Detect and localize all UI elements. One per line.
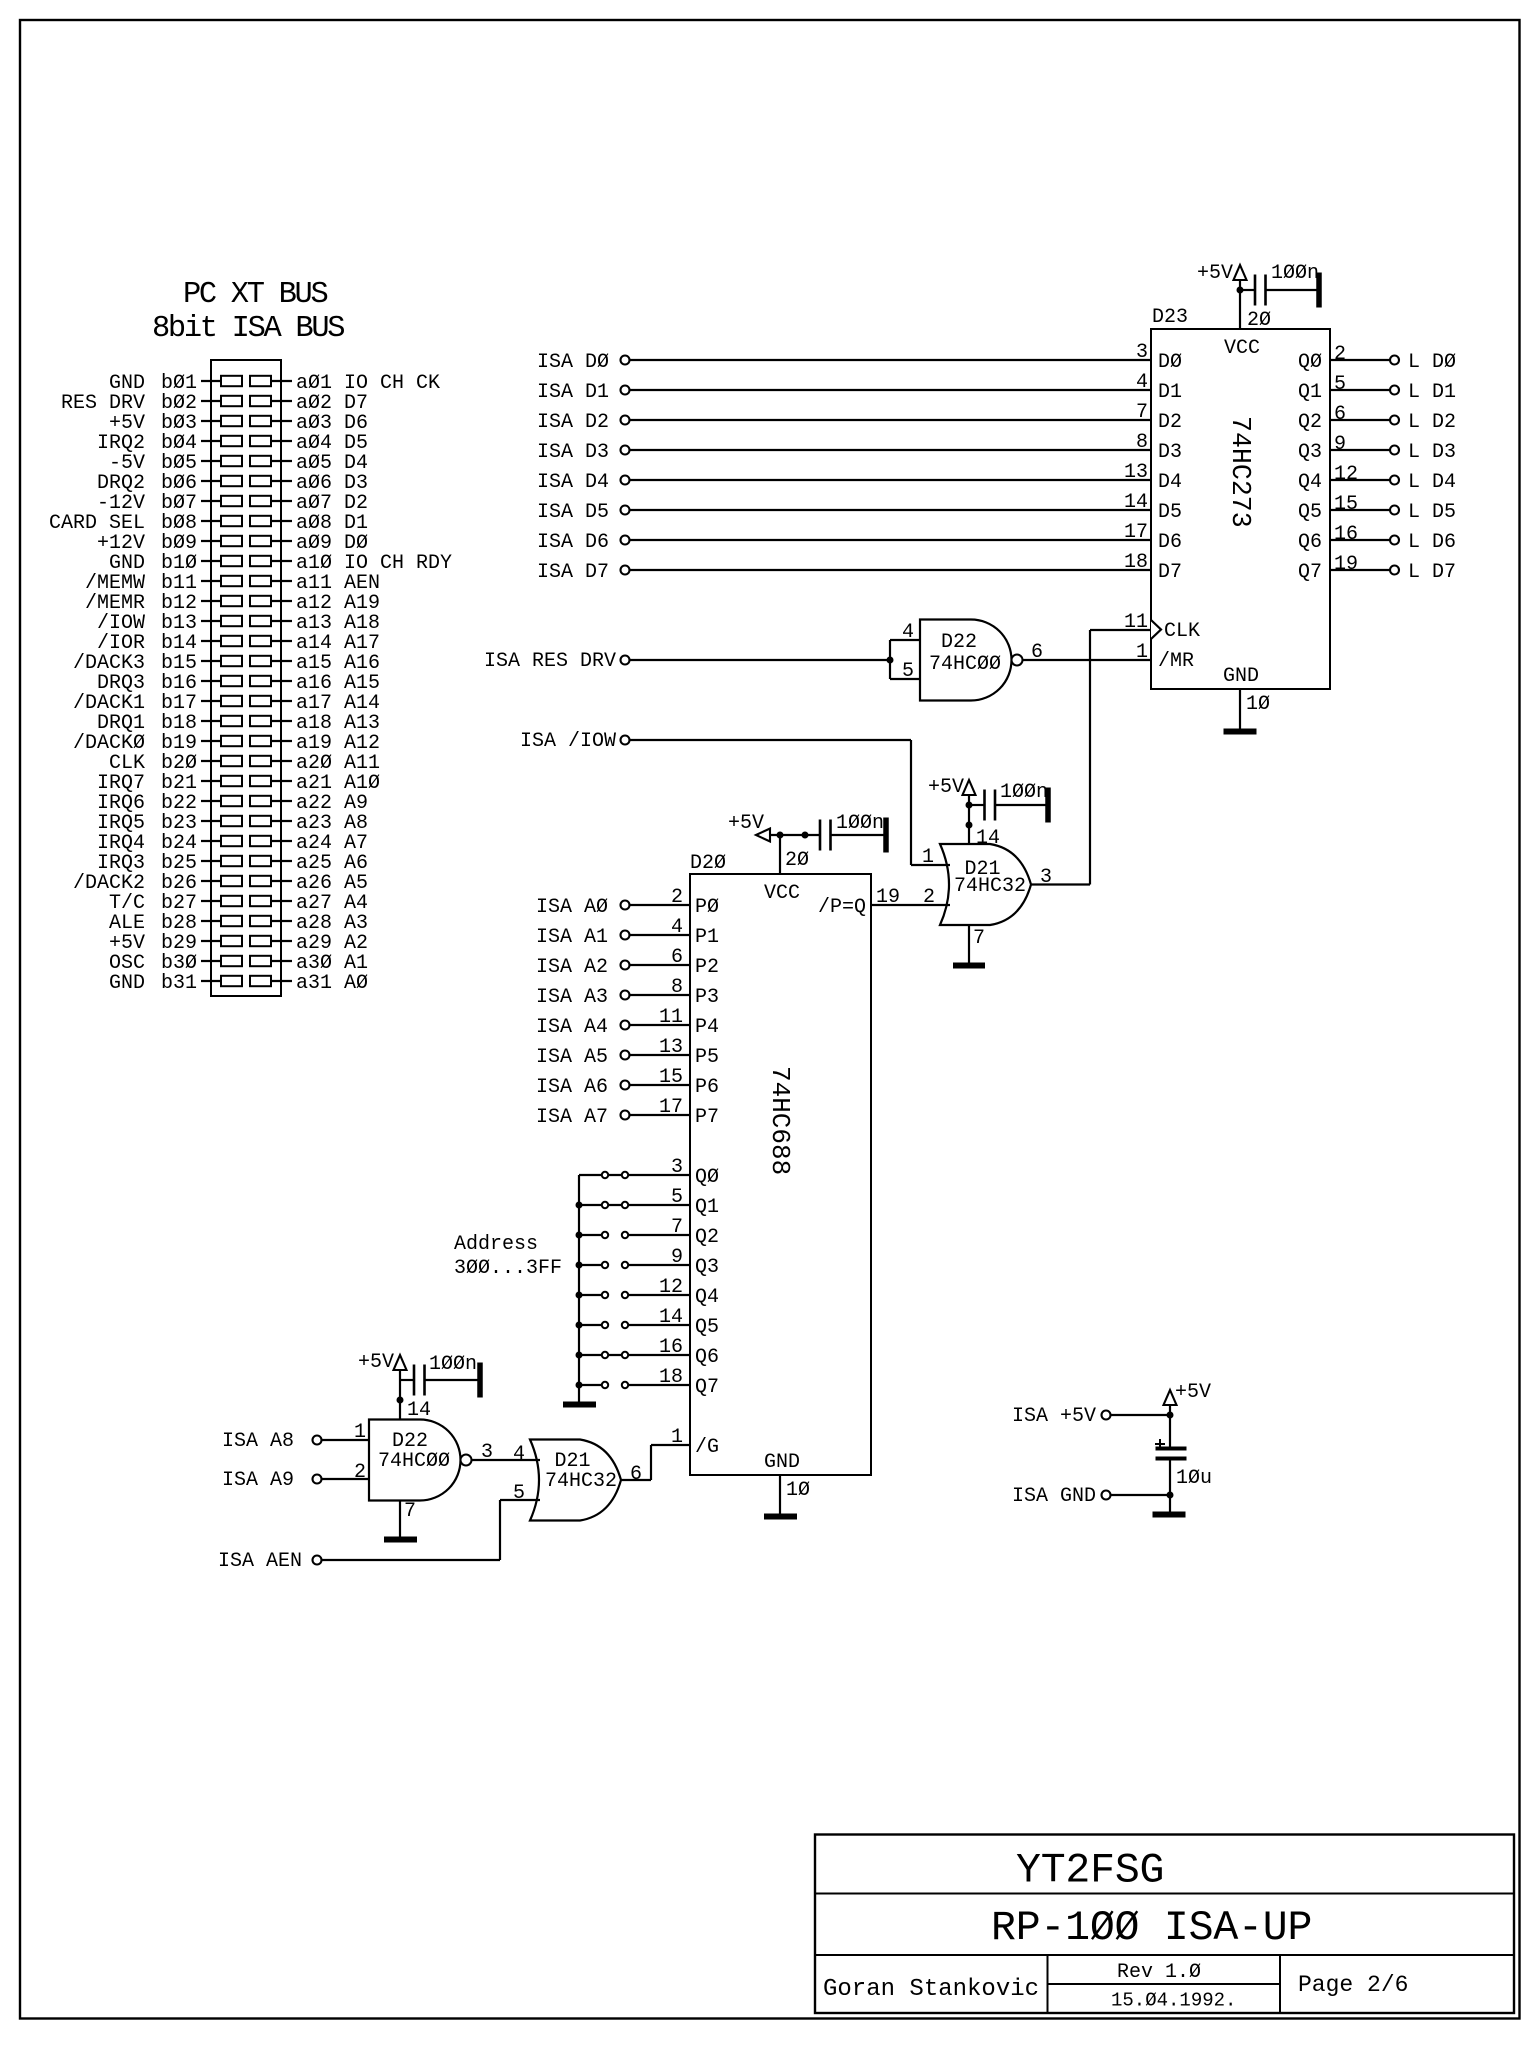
D22 pin 2 number xyxy=(354,1461,366,1484)
D23 pin label D0 xyxy=(1158,351,1182,374)
svg-text:ISA D3: ISA D3 xyxy=(537,441,609,464)
node label: PC XT BUS heading xyxy=(183,278,327,312)
wire ISA RES DRV to D22 inputs xyxy=(630,640,920,679)
D23 pin label D2 xyxy=(1158,411,1182,434)
svg-text:D2: D2 xyxy=(1158,411,1182,434)
D23 pin 3 number xyxy=(1136,341,1148,364)
svg-text:3: 3 xyxy=(1136,341,1148,364)
wire ISA D4 to D23 pin 13 xyxy=(630,479,1151,481)
wire ISA D5 to D23 pin 14 xyxy=(630,509,1151,511)
svg-text:Q3: Q3 xyxy=(695,1256,719,1279)
svg-text:QØ: QØ xyxy=(695,1166,719,1189)
svg-text:ISA A1: ISA A1 xyxy=(536,926,608,949)
D23 pin 11 number xyxy=(1124,611,1148,634)
D23 pin label D5 xyxy=(1158,501,1182,524)
D23 pin label Q2 xyxy=(1298,411,1322,434)
svg-text:74HC688: 74HC688 xyxy=(765,1066,795,1175)
node ISA RES DRV terminal xyxy=(484,650,630,673)
D20 pin 8 number xyxy=(671,976,683,999)
svg-text:QØ: QØ xyxy=(1298,351,1322,374)
D20 pin 20 VCC stem xyxy=(777,832,809,874)
svg-text:ISA A4: ISA A4 xyxy=(536,1016,608,1039)
D23 pin 5 number xyxy=(1334,373,1346,396)
node ISA A0 terminal xyxy=(536,896,630,919)
node ISA D5 terminal xyxy=(537,501,630,524)
svg-text:D4: D4 xyxy=(1158,471,1182,494)
D23 pin 15 number xyxy=(1334,493,1358,516)
wire ISA D7 to D23 pin 18 xyxy=(630,569,1151,571)
svg-text:4: 4 xyxy=(671,916,683,939)
node L D5 terminal xyxy=(1390,501,1456,524)
wire D23 Q4 to L D4 xyxy=(1330,479,1389,481)
D20 pin 11 number xyxy=(659,1006,683,1029)
connector pin b15 / a15 row xyxy=(73,652,380,675)
svg-text:ISA AØ: ISA AØ xyxy=(536,896,608,919)
title: YT2FSG xyxy=(1016,1848,1164,1895)
svg-text:GND: GND xyxy=(109,972,145,995)
svg-text:ISA D2: ISA D2 xyxy=(537,411,609,434)
wire ISA GND to ground xyxy=(1111,1460,1173,1512)
svg-text:ISA A5: ISA A5 xyxy=(536,1046,608,1069)
D21 pin 5 number xyxy=(513,1482,525,1505)
svg-text:19: 19 xyxy=(1334,553,1358,576)
svg-text:8: 8 xyxy=(671,976,683,999)
D21 pin 6 number xyxy=(630,1463,642,1486)
svg-text:5: 5 xyxy=(902,660,914,683)
connector pin b27 / a27 row xyxy=(109,892,368,915)
svg-text:Q4: Q4 xyxy=(695,1286,719,1309)
svg-text:Q4: Q4 xyxy=(1298,471,1322,494)
jumper J0 on D20 Q0 (closed) xyxy=(579,1172,690,1178)
wire D22 output to D23 /MR pin 1 xyxy=(1023,659,1151,661)
connector pin b05 / a05 row xyxy=(109,452,368,475)
svg-text:74HC32: 74HC32 xyxy=(954,875,1026,898)
wire ISA A3 to D20 pin 8 xyxy=(630,994,690,996)
svg-text:14: 14 xyxy=(407,1399,431,1422)
D20 pin label Q7 xyxy=(695,1376,719,1399)
connector pin b16 / a16 row xyxy=(97,672,380,695)
connector pin b18 / a18 row xyxy=(97,712,380,735)
svg-text:ISA D4: ISA D4 xyxy=(537,471,609,494)
wire ISA A1 to D20 pin 4 xyxy=(630,934,690,936)
D23 pin 10 GND stem xyxy=(1240,689,1270,729)
svg-text:17: 17 xyxy=(659,1096,683,1119)
wire ISA AEN to D21 pin 5 xyxy=(322,1500,540,1560)
connector pin b23 / a23 row xyxy=(97,812,368,835)
D20 pin label Q5 xyxy=(695,1316,719,1339)
svg-text:2: 2 xyxy=(671,886,683,909)
connector pin b14 / a14 row xyxy=(97,632,380,655)
D20 pin label P0 xyxy=(695,896,719,919)
svg-text:7: 7 xyxy=(404,1500,416,1523)
wire ISA A7 to D20 pin 17 xyxy=(630,1114,690,1116)
D20 pin 2 number xyxy=(671,886,683,909)
svg-text:CLK: CLK xyxy=(1164,620,1200,643)
D22 pin 1 number xyxy=(354,1421,366,1444)
IC D20 74HC688 body xyxy=(690,852,871,1475)
node ISA A1 terminal xyxy=(536,926,630,949)
title: date 15.04.1992. xyxy=(1111,1990,1236,2012)
svg-text:/G: /G xyxy=(695,1436,719,1459)
svg-text:1ØØn: 1ØØn xyxy=(1271,262,1319,285)
wire ISA A2 to D20 pin 6 xyxy=(630,964,690,966)
nand gate D22 74HC00 (top) xyxy=(920,620,1023,701)
node ISA A7 terminal xyxy=(536,1106,630,1129)
svg-text:P6: P6 xyxy=(695,1076,719,1099)
svg-text:74HC273: 74HC273 xyxy=(1225,416,1255,528)
D20 pin 7 number xyxy=(671,1216,683,1239)
D20 pin label Q3 xyxy=(695,1256,719,1279)
D20 pin 15 number xyxy=(659,1066,683,1089)
node ISA D2 terminal xyxy=(537,411,630,434)
node ISA D1 terminal xyxy=(537,381,630,404)
wire D23 Q5 to L D5 xyxy=(1330,509,1389,511)
wire ISA D2 to D23 pin 7 xyxy=(630,419,1151,421)
D23 pin label Q6 xyxy=(1298,531,1322,554)
D20 pin label Q6 xyxy=(695,1346,719,1369)
svg-text:ISA D7: ISA D7 xyxy=(537,561,609,584)
D23 rotated part value 74HC273 xyxy=(1225,416,1255,528)
D23 pin 19 number xyxy=(1334,553,1358,576)
title: author Goran Stankovic xyxy=(823,1976,1039,2003)
D23 pin 13 number xyxy=(1124,461,1148,484)
D23 pin label D3 xyxy=(1158,441,1182,464)
svg-text:Q7: Q7 xyxy=(695,1376,719,1399)
svg-text:D3: D3 xyxy=(1158,441,1182,464)
svg-text:ISA +5V: ISA +5V xyxy=(1012,1405,1096,1428)
wire D23 Q7 to L D7 xyxy=(1330,569,1389,571)
node ISA D0 terminal xyxy=(537,351,630,374)
node L D4 terminal xyxy=(1390,471,1456,494)
svg-text:1: 1 xyxy=(354,1421,366,1444)
node L D3 terminal xyxy=(1390,441,1456,464)
svg-text:ISA A6: ISA A6 xyxy=(536,1076,608,1099)
D20 pin 5 number xyxy=(671,1186,683,1209)
svg-text:Rev 1.Ø: Rev 1.Ø xyxy=(1117,1961,1201,1984)
svg-text:L D5: L D5 xyxy=(1408,501,1456,524)
D22 pin 14 power stem xyxy=(397,1370,431,1422)
svg-text:+5V: +5V xyxy=(1175,1381,1211,1404)
wire ISA A0 to D20 pin 2 xyxy=(630,904,690,906)
svg-text:Q7: Q7 xyxy=(1298,561,1322,584)
D20 pin label Q4 xyxy=(695,1286,719,1309)
D20 pin 4 number xyxy=(671,916,683,939)
wire D23 Q6 to L D6 xyxy=(1330,539,1389,541)
D20 pin label P2 xyxy=(695,956,719,979)
svg-text:ISA DØ: ISA DØ xyxy=(537,351,609,374)
svg-text:ISA GND: ISA GND xyxy=(1012,1485,1096,1508)
D23 pin label D1 xyxy=(1158,381,1182,404)
node ISA A9 terminal xyxy=(222,1469,322,1492)
connector pin b25 / a25 row xyxy=(97,852,368,875)
svg-text:16: 16 xyxy=(659,1336,683,1359)
connector pin b13 / a13 row xyxy=(97,612,380,635)
D20 pin 10 GND stem xyxy=(780,1475,810,1514)
svg-text:3: 3 xyxy=(671,1156,683,1179)
D21 pin 3 number xyxy=(1040,866,1052,889)
D22 pin 3 number xyxy=(481,1441,493,1464)
svg-text:1Ø: 1Ø xyxy=(786,1479,810,1502)
connector pin b07 / a07 row xyxy=(97,492,368,515)
node ISA A4 terminal xyxy=(536,1016,630,1039)
connector pin b12 / a12 row xyxy=(85,592,380,615)
svg-text:1Ø: 1Ø xyxy=(1246,693,1270,716)
svg-text:L D4: L D4 xyxy=(1408,471,1456,494)
svg-text:L DØ: L DØ xyxy=(1408,351,1456,374)
svg-text:ISA RES DRV: ISA RES DRV xyxy=(484,650,616,673)
svg-text:14: 14 xyxy=(1124,491,1148,514)
D23 pin 1 number xyxy=(1136,641,1148,664)
svg-text:DØ: DØ xyxy=(1158,351,1182,374)
svg-text:YT2FSG: YT2FSG xyxy=(1016,1848,1164,1895)
svg-text:ISA A8: ISA A8 xyxy=(222,1430,294,1453)
D21 pin 7 GND stem xyxy=(969,925,985,963)
svg-text:Q5: Q5 xyxy=(1298,501,1322,524)
svg-text:Page 2/6: Page 2/6 xyxy=(1298,1972,1408,1998)
svg-text:AØ: AØ xyxy=(344,972,368,995)
svg-text:P3: P3 xyxy=(695,986,719,1009)
svg-text:D7: D7 xyxy=(1158,561,1182,584)
svg-text:17: 17 xyxy=(1124,521,1148,544)
svg-text:Goran Stankovic: Goran Stankovic xyxy=(823,1976,1039,2003)
jumper J6 on D20 Q6 (closed) xyxy=(579,1352,690,1358)
svg-text:4: 4 xyxy=(902,621,914,644)
jumper J5 on D20 Q5 (open) xyxy=(579,1322,690,1328)
wire D21 output to D20 /G pin 1 xyxy=(621,1445,690,1480)
svg-text:D23: D23 xyxy=(1152,306,1188,329)
svg-text:Q6: Q6 xyxy=(1298,531,1322,554)
D23 pin 4 number xyxy=(1136,371,1148,394)
wire D20 /P=Q pin 19 to D21 pin 2 xyxy=(871,904,950,906)
svg-text:D1: D1 xyxy=(1158,381,1182,404)
wire D23 Q1 to L D1 xyxy=(1330,389,1389,391)
jumper J3 on D20 Q3 (open) xyxy=(579,1262,690,1268)
svg-text:ISA /IOW: ISA /IOW xyxy=(520,730,616,753)
node L D7 terminal xyxy=(1390,561,1456,584)
connector pin b04 / a04 row xyxy=(97,432,368,455)
D23 pin label D7 xyxy=(1158,561,1182,584)
D23 pin label Q0 xyxy=(1298,351,1322,374)
or gate D21 74HC32 (top) xyxy=(940,844,1031,925)
connector pin b03 / a03 row xyxy=(109,412,368,435)
D20 pin 14 number xyxy=(659,1306,683,1329)
D22 pin 5 number xyxy=(902,660,914,683)
svg-text:L D6: L D6 xyxy=(1408,531,1456,554)
wire ISA D1 to D23 pin 4 xyxy=(630,389,1151,391)
node L D6 terminal xyxy=(1390,531,1456,554)
svg-text:Q1: Q1 xyxy=(1298,381,1322,404)
svg-text:74HCØØ: 74HCØØ xyxy=(378,1450,450,1473)
node ISA AEN terminal xyxy=(218,1550,322,1573)
ground symbol below jumper rail xyxy=(564,1402,596,1407)
node ISA +5V terminal xyxy=(1012,1405,1111,1428)
wire ISA A6 to D20 pin 15 xyxy=(630,1084,690,1086)
svg-text:RP-1ØØ ISA-UP: RP-1ØØ ISA-UP xyxy=(991,1905,1312,1952)
capacitor 100n at D22 xyxy=(400,1353,482,1397)
title: Page 2/6 xyxy=(1298,1972,1408,1998)
title: Rev 1.0 xyxy=(1117,1961,1201,1984)
ground symbol at ISA GND xyxy=(1153,1512,1185,1517)
D20 pin label Q1 xyxy=(695,1196,719,1219)
connector pin b11 / a11 row xyxy=(85,572,380,595)
svg-text:L D7: L D7 xyxy=(1408,561,1456,584)
node ISA A2 terminal xyxy=(536,956,630,979)
svg-text:16: 16 xyxy=(1334,523,1358,546)
svg-text:D2Ø: D2Ø xyxy=(690,852,726,875)
svg-text:Q5: Q5 xyxy=(695,1316,719,1339)
connector pin b01 / a01 row xyxy=(109,372,440,395)
svg-text:GND: GND xyxy=(764,1451,800,1474)
svg-text:9: 9 xyxy=(1334,433,1346,456)
D20 pin 9 number xyxy=(671,1246,683,1269)
D20 pin 16 number xyxy=(659,1336,683,1359)
ground symbol below D22 xyxy=(385,1537,417,1542)
svg-text:Q2: Q2 xyxy=(695,1226,719,1249)
D23 pin label Q3 xyxy=(1298,441,1322,464)
svg-text:7: 7 xyxy=(1136,401,1148,424)
D20 pin 12 number xyxy=(659,1276,683,1299)
svg-text:15: 15 xyxy=(659,1066,683,1089)
svg-text:8bit ISA BUS: 8bit ISA BUS xyxy=(152,312,344,346)
D20 pin label Q0 xyxy=(695,1166,719,1189)
svg-text:D5: D5 xyxy=(1158,501,1182,524)
svg-text:19: 19 xyxy=(876,886,900,909)
svg-text:PØ: PØ xyxy=(695,896,719,919)
ground symbol below D21 xyxy=(954,963,985,968)
svg-text:VCC: VCC xyxy=(1224,337,1260,360)
D23 pin 16 number xyxy=(1334,523,1358,546)
wire D23 Q3 to L D3 xyxy=(1330,449,1389,451)
svg-text:18: 18 xyxy=(1124,551,1148,574)
D23 pin label Q5 xyxy=(1298,501,1322,524)
svg-text:PC XT BUS: PC XT BUS xyxy=(183,278,327,312)
D20 pin label P3 xyxy=(695,986,719,1009)
or gate D21 74HC32 (bottom) xyxy=(530,1440,621,1521)
node ISA A5 terminal xyxy=(536,1046,630,1069)
svg-text:4: 4 xyxy=(1136,371,1148,394)
svg-text:74HC32: 74HC32 xyxy=(545,1470,617,1493)
D20 pin label Q2 xyxy=(695,1226,719,1249)
connector pin b17 / a17 row xyxy=(73,692,380,715)
capacitor 100n at D23 xyxy=(1240,262,1321,307)
svg-text:Q1: Q1 xyxy=(695,1196,719,1219)
svg-text:3ØØ...3FF: 3ØØ...3FF xyxy=(454,1257,562,1280)
node L D1 terminal xyxy=(1390,381,1456,404)
wire D21 output to D23 CLK pin 11 xyxy=(1031,630,1151,885)
svg-text:ISA A7: ISA A7 xyxy=(536,1106,608,1129)
svg-text:GND: GND xyxy=(1223,665,1259,688)
node label: 8bit ISA BUS heading xyxy=(152,312,344,346)
svg-text:VCC: VCC xyxy=(764,882,800,905)
D23 pin label D4 xyxy=(1158,471,1182,494)
D20 pin label P4 xyxy=(695,1016,719,1039)
node ISA GND terminal xyxy=(1012,1485,1111,1508)
svg-text:9: 9 xyxy=(671,1246,683,1269)
ground symbol below D23 xyxy=(1224,729,1256,734)
D20 pin label P6 xyxy=(695,1076,719,1099)
svg-text:P5: P5 xyxy=(695,1046,719,1069)
svg-text:2Ø: 2Ø xyxy=(1247,309,1271,332)
svg-text:ISA D5: ISA D5 xyxy=(537,501,609,524)
svg-text:5: 5 xyxy=(513,1482,525,1505)
connector pin b10 / a10 row xyxy=(109,552,452,575)
power +5V symbol at D20 VCC xyxy=(728,812,820,841)
svg-text:P2: P2 xyxy=(695,956,719,979)
svg-text:7: 7 xyxy=(973,927,985,950)
D23 pin 20 VCC stem xyxy=(1237,287,1271,332)
svg-text:11: 11 xyxy=(659,1006,683,1029)
svg-text:a31: a31 xyxy=(296,972,332,995)
D23 pin 2 number xyxy=(1334,343,1346,366)
svg-text:2Ø: 2Ø xyxy=(785,849,809,872)
connector pin b31 / a31 row xyxy=(109,972,368,995)
D20 pin 17 number xyxy=(659,1096,683,1119)
connector pin b20 / a20 row xyxy=(109,752,380,775)
svg-text:8: 8 xyxy=(1136,431,1148,454)
svg-text:ISA A3: ISA A3 xyxy=(536,986,608,1009)
svg-text:14: 14 xyxy=(659,1306,683,1329)
D20 pin 19 number xyxy=(876,886,900,909)
power +5V symbol above D21 xyxy=(928,776,976,799)
jumper J4 on D20 Q4 (open) xyxy=(579,1292,690,1298)
jumper J2 on D20 Q2 (open) xyxy=(579,1232,690,1238)
svg-text:7: 7 xyxy=(671,1216,683,1239)
D20 pin 1 number xyxy=(671,1426,683,1449)
svg-text:ISA D6: ISA D6 xyxy=(537,531,609,554)
title: RP-100 ISA-UP xyxy=(991,1905,1312,1952)
svg-text:ISA A2: ISA A2 xyxy=(536,956,608,979)
svg-text:15.Ø4.1992.: 15.Ø4.1992. xyxy=(1111,1990,1236,2012)
svg-text:Address: Address xyxy=(454,1233,538,1256)
D23 pin 8 number xyxy=(1136,431,1148,454)
svg-text:ISA D1: ISA D1 xyxy=(537,381,609,404)
D22 pin 7 GND stem xyxy=(400,1500,416,1537)
D21 pin 4 number xyxy=(513,1443,525,1466)
node ISA A3 terminal xyxy=(536,986,630,1009)
node L D2 terminal xyxy=(1390,411,1456,434)
D23 pin 7 number xyxy=(1136,401,1148,424)
svg-text:L D3: L D3 xyxy=(1408,441,1456,464)
svg-text:13: 13 xyxy=(1124,461,1148,484)
wire ISA A9 to D22 pin 2 xyxy=(322,1478,369,1480)
wire ISA A5 to D20 pin 13 xyxy=(630,1054,690,1056)
IC D23 74HC273 body xyxy=(1151,306,1330,689)
power +5V symbol above D23 xyxy=(1197,262,1247,290)
svg-text:2: 2 xyxy=(1334,343,1346,366)
node ISA D4 terminal xyxy=(537,471,630,494)
D21 pin 14 power stem xyxy=(966,795,1000,850)
node ISA D7 terminal xyxy=(537,561,630,584)
power +5V symbol at ISA +5V xyxy=(1164,1381,1212,1415)
node L D0 terminal xyxy=(1390,351,1456,374)
svg-text:1ØØn: 1ØØn xyxy=(429,1353,477,1376)
D22 pin 4 number xyxy=(902,621,914,644)
title block frame xyxy=(815,1835,1514,2014)
connector pin b26 / a26 row xyxy=(73,872,368,895)
D20 pin 6 number xyxy=(671,946,683,969)
address jumper ground rail xyxy=(576,1175,582,1402)
svg-text:1ØØn: 1ØØn xyxy=(1000,781,1048,804)
svg-text:1Øu: 1Øu xyxy=(1176,1467,1212,1490)
D21 pin 1 number xyxy=(922,846,934,869)
wire ISA D0 to D23 pin 3 xyxy=(630,359,1151,361)
node ISA D3 terminal xyxy=(537,441,630,464)
svg-text:14: 14 xyxy=(976,827,1000,850)
svg-text:P4: P4 xyxy=(695,1016,719,1039)
connector pin b06 / a06 row xyxy=(97,472,368,495)
svg-text:+5V: +5V xyxy=(1197,262,1233,285)
wire ISA A4 to D20 pin 11 xyxy=(630,1024,690,1026)
